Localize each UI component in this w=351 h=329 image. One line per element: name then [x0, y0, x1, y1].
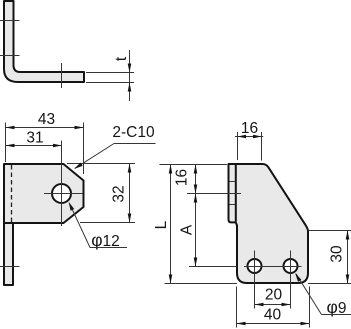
- dimension t: extension lines: [86, 72, 134, 74]
- dimension 31: right arrow: [53, 144, 62, 148]
- svg-text:30: 30: [328, 245, 345, 263]
- hole phi9 right: [284, 259, 298, 273]
- dimension t: arrow down: [128, 64, 132, 73]
- dimension A: dimension line: [195, 194, 197, 267]
- dimension 40: right arrow: [301, 322, 310, 326]
- front view: flange hole edge lines: [230, 181, 236, 183]
- plan view: flange centerline: [0, 266, 20, 268]
- front view: flange inner edge: [235, 165, 237, 222]
- hole phi12 horizontal centerline: [44, 193, 83, 195]
- dimension 43: dimension line: [6, 127, 84, 129]
- dimension 43: extension lines: [5, 123, 7, 163]
- dimension 32: dimension line: [129, 164, 131, 223]
- label 2-C10: leader line: [75, 144, 114, 169]
- left hole vertical centerline / extension: [254, 251, 256, 309]
- dimension 20: dimension line: [255, 304, 291, 306]
- dimension 40: extension lines: [236, 287, 238, 328]
- dimension L: top arrow: [169, 165, 173, 174]
- label 2-C10: underline: [114, 143, 156, 145]
- label phi12: leader line: [70, 204, 91, 248]
- plan view: bend line (dashed): [11, 165, 13, 222]
- dimension A: top arrow: [194, 194, 198, 203]
- label phi12: leader arrow: [69, 202, 75, 211]
- plan view: plate outline with chamfers: [4, 164, 84, 223]
- dimension 30: dimension line: [347, 231, 349, 284]
- right hole vertical centerline / extension: [290, 251, 292, 309]
- svg-text:32: 32: [111, 185, 128, 202]
- dimension 16 left: bottom arrow: [194, 185, 198, 194]
- dimension 30: bottom arrow: [346, 275, 350, 284]
- label 2-C10: leader arrow: [74, 163, 83, 170]
- dimension 31: dimension line: [6, 145, 63, 147]
- label phi9: leader line: [296, 274, 322, 315]
- dimension 32: extension lines: [67, 163, 135, 165]
- dimension t: arrow up: [128, 83, 132, 92]
- dimension 40: left arrow: [237, 322, 246, 326]
- dimension 32: bottom arrow: [128, 214, 132, 223]
- front view: plate outline: [229, 164, 309, 283]
- dimension 43: right arrow: [75, 126, 84, 130]
- front view: flange hole centerline: [187, 193, 241, 195]
- dimension A: bottom arrow: [194, 258, 198, 267]
- label phi9: leader arrow: [295, 273, 301, 282]
- dimension 32: top arrow: [128, 164, 132, 173]
- dimension 31: left arrow: [6, 144, 15, 148]
- svg-text:16: 16: [241, 120, 258, 137]
- holes horizontal centerline: [244, 266, 302, 268]
- dimension 16 left: top arrow: [194, 165, 198, 174]
- hole phi9 left: [248, 259, 262, 273]
- svg-text:20: 20: [265, 287, 283, 304]
- dimension L: dimension line: [170, 165, 172, 284]
- hole phi12 vertical centerline / 31 extension: [61, 141, 63, 227]
- hole phi12: [52, 184, 71, 203]
- dimension 30: top arrow: [346, 231, 350, 240]
- dimension 30: bottom extension line: [308, 283, 351, 285]
- plan view: lower flange strip: [4, 223, 13, 285]
- side view: horizontal-leg hole centerline: [61, 63, 63, 88]
- dimension t: dimension line: [129, 50, 131, 101]
- side view: upper hole centerline: [0, 20, 20, 22]
- svg-text:16: 16: [173, 169, 190, 186]
- dimension 16 top: left arrow: [238, 135, 247, 139]
- dimension 16 top: right arrow: [253, 135, 262, 139]
- side view: L-angle outline: [4, 1, 84, 82]
- label phi12: underline: [90, 247, 127, 249]
- dimension 40: dimension line: [237, 323, 310, 325]
- svg-text:40: 40: [264, 307, 282, 324]
- dimension 16 top: extension lines: [237, 132, 239, 160]
- svg-text:43: 43: [38, 111, 55, 128]
- svg-text:A: A: [179, 224, 196, 235]
- front view: top extension line: [160, 164, 228, 166]
- dimension L: bottom arrow: [169, 275, 173, 284]
- dimension 20: left arrow: [255, 303, 264, 307]
- svg-text:31: 31: [26, 130, 43, 147]
- dimension L: bottom extension line: [165, 283, 238, 285]
- side view: lower hole centerline: [0, 55, 20, 57]
- svg-text:t: t: [113, 56, 130, 61]
- dimension 16 top: dimension line: [235, 136, 263, 138]
- dimension 20: right arrow: [282, 303, 291, 307]
- svg-text:2-C10: 2-C10: [112, 124, 155, 141]
- dimension 43: left arrow: [6, 126, 15, 130]
- dimension 16 left: dimension line: [195, 165, 197, 194]
- dimension 30: top extension line: [309, 230, 351, 232]
- svg-text:L: L: [153, 220, 170, 229]
- label phi9: underline: [322, 314, 351, 316]
- dimension A: bottom extension line: [189, 266, 237, 268]
